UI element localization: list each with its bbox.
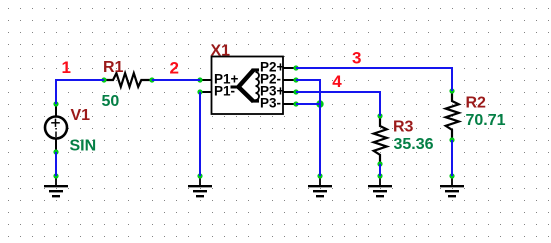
wire node1 horizontal from V1 corner to R1 <box>56 79 104 81</box>
wire ground column vertical P2- P3- to ground <box>319 79 321 176</box>
wire node4 horizontal from X1 pin P3+ to R3 column <box>296 91 380 93</box>
ground under P2-/P3- column <box>308 176 332 196</box>
X1 pin stub P1+ <box>200 79 212 81</box>
ground under R3 <box>368 176 392 196</box>
svg-text:R3: R3 <box>393 119 414 136</box>
svg-text:V1: V1 <box>71 107 91 124</box>
wire node3 horizontal from X1 pin P2+ to R2 column <box>296 67 452 69</box>
svg-text:3: 3 <box>352 49 361 68</box>
X1 pin stub P3+ <box>283 91 296 93</box>
svg-text:1: 1 <box>62 58 71 77</box>
resistor R1 <box>104 73 152 87</box>
junction dot X1 pin P2- <box>293 77 298 82</box>
junction dot R3 bottom terminal <box>377 161 382 166</box>
wire R2 bottom to ground <box>451 140 453 176</box>
junction dot V1 bottom terminal <box>53 149 58 154</box>
junction dot X1 pin P1+ <box>197 77 202 82</box>
wire node1 vertical corner down to V1 plus terminal <box>55 79 57 104</box>
X1 pin stub P2+ <box>283 67 296 69</box>
svg-text:X1: X1 <box>211 43 231 60</box>
junction dot ground R3 <box>377 173 382 178</box>
svg-text:50: 50 <box>102 93 120 110</box>
junction dot V1 top terminal <box>53 101 58 106</box>
junction dot ground R2 <box>449 173 454 178</box>
junction dot ground P1- <box>197 173 202 178</box>
svg-text:70.71: 70.71 <box>466 112 506 129</box>
svg-text:35.36: 35.36 <box>394 136 434 153</box>
junction dot X1 pin P1- <box>197 89 202 94</box>
ground under X1 P1- <box>188 176 212 196</box>
wire X1 pin P2- horizontal to ground column <box>296 79 320 81</box>
junction dot R2 top terminal <box>449 88 454 93</box>
svg-text:R1: R1 <box>103 59 124 76</box>
voltage source V1 <box>45 104 67 152</box>
svg-text:R2: R2 <box>466 95 487 112</box>
junction dot X1 pin P3- <box>293 101 298 106</box>
wire X1 pin P1- down to ground <box>199 92 201 176</box>
junction dot R3 top terminal <box>377 113 382 118</box>
X1 pin stub P3- <box>283 103 296 105</box>
junction dot R1 right terminal <box>149 77 154 82</box>
wire node4 vertical down to R3 top <box>379 91 381 116</box>
X1 pin stub P2- <box>283 79 296 81</box>
wire node3 vertical down to R2 top <box>451 67 453 91</box>
X1 splitter symbol <box>231 70 260 102</box>
wire R3 bottom to ground <box>379 164 381 176</box>
junction dot ground column <box>317 173 322 178</box>
wire node2 from R1 to X1 pin P1+ <box>152 79 200 81</box>
junction dot ground V1 <box>53 173 58 178</box>
wire X1 pin P3- to ground column junction <box>296 103 320 105</box>
svg-text:2: 2 <box>170 59 179 78</box>
ground under R2 <box>440 176 464 196</box>
svg-text:SIN: SIN <box>70 138 97 155</box>
junction dot R1 left terminal <box>101 77 106 82</box>
junction dot R2 bottom terminal <box>449 137 454 142</box>
svg-text:P1-: P1- <box>214 84 235 99</box>
wire V1 minus terminal to ground <box>55 152 57 176</box>
X1 pin stub P1- <box>200 91 212 93</box>
junction dot X1 pin P2+ <box>293 65 298 70</box>
resistor R2 <box>446 91 459 140</box>
svg-text:4: 4 <box>332 72 342 91</box>
ground under V1 <box>44 176 68 196</box>
subcircuit X1 box <box>212 57 284 115</box>
junction dot T-junction P3- column <box>316 100 323 107</box>
svg-text:P3-: P3- <box>260 96 281 111</box>
resistor R3 <box>374 116 387 164</box>
junction dot X1 pin P3+ <box>293 89 298 94</box>
